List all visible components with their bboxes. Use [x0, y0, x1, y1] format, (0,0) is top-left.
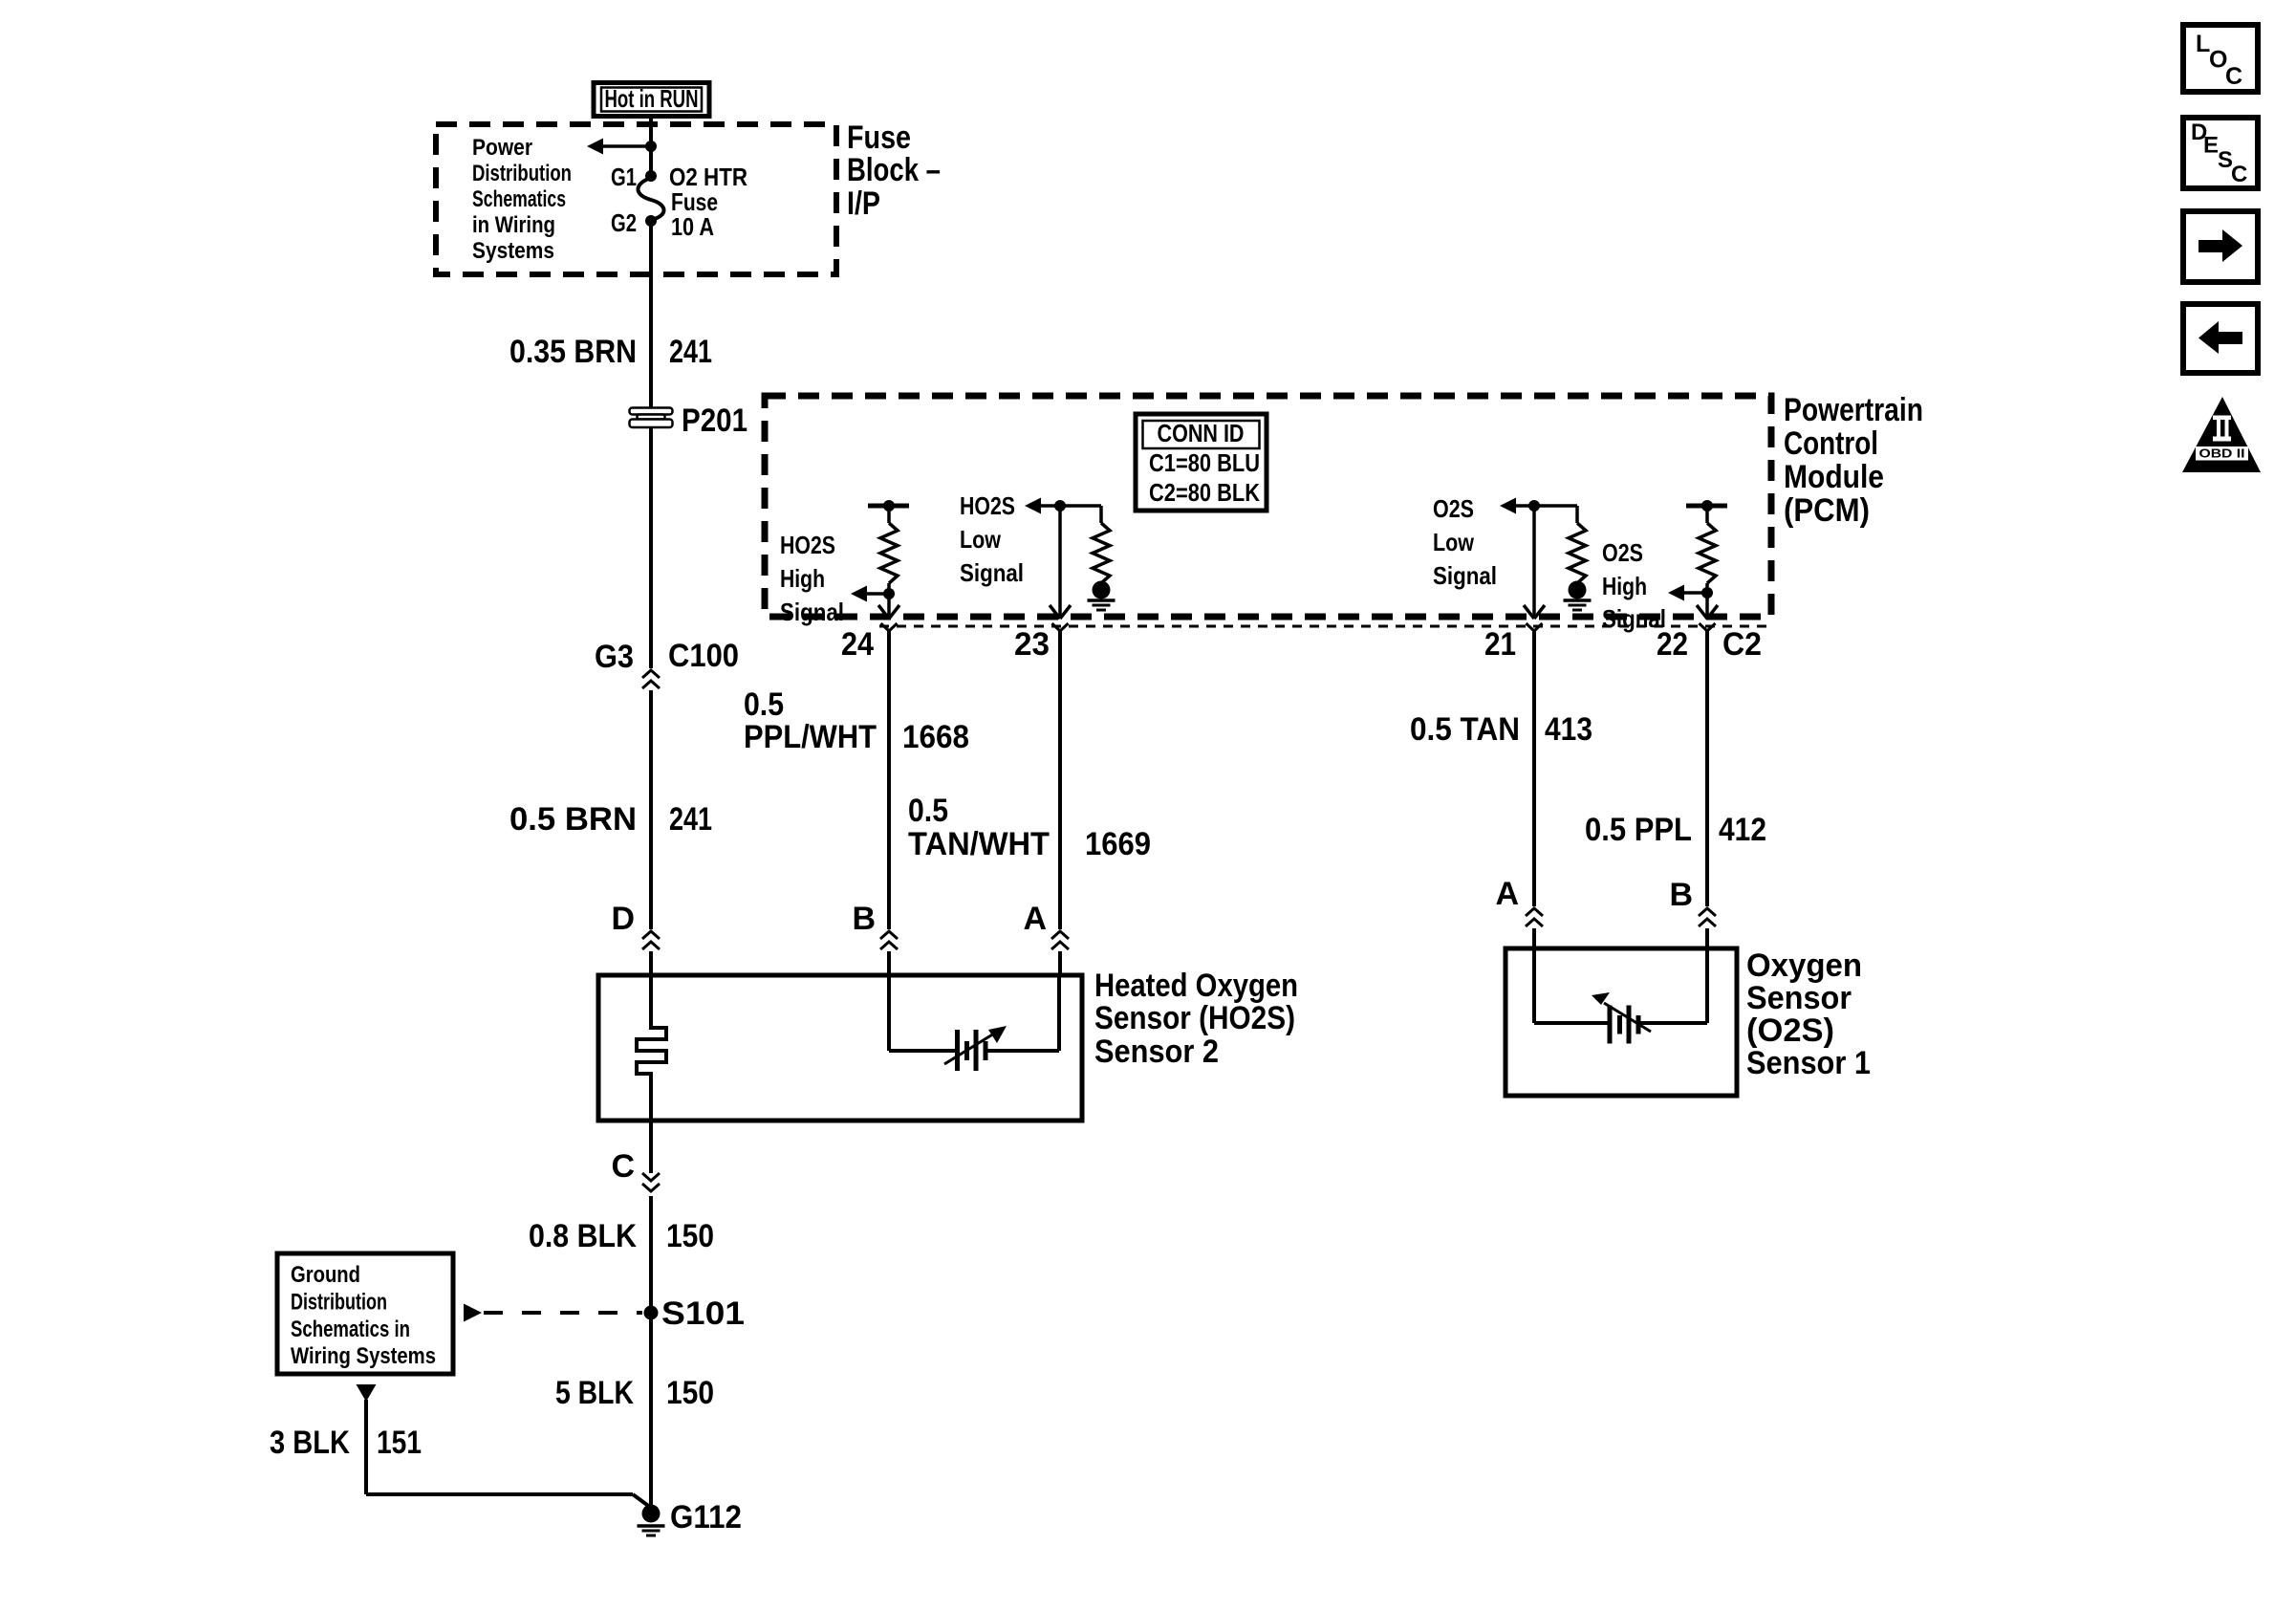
svg-text:Systems: Systems	[472, 238, 554, 264]
svg-text:PPL/WHT: PPL/WHT	[744, 719, 877, 755]
svg-text:Schematics: Schematics	[472, 186, 566, 212]
svg-text:Fuse: Fuse	[847, 120, 911, 156]
svg-text:G3: G3	[595, 639, 634, 675]
svg-text:G1: G1	[611, 163, 637, 191]
svg-text:High: High	[780, 564, 825, 593]
svg-text:B: B	[852, 901, 876, 937]
svg-text:10 A: 10 A	[671, 212, 714, 241]
svg-text:Schematics in: Schematics in	[291, 1317, 410, 1342]
svg-text:0.5: 0.5	[908, 793, 948, 829]
svg-text:C: C	[2225, 63, 2242, 90]
svg-text:3 BLK: 3 BLK	[270, 1425, 350, 1461]
svg-text:24: 24	[841, 626, 874, 663]
svg-text:(PCM): (PCM)	[1784, 492, 1870, 529]
svg-text:Signal: Signal	[1433, 561, 1497, 590]
svg-text:Sensor (HO2S): Sensor (HO2S)	[1094, 1000, 1295, 1036]
svg-text:5 BLK: 5 BLK	[555, 1375, 634, 1411]
svg-text:(O2S): (O2S)	[1746, 1012, 1834, 1049]
svg-text:0.8 BLK: 0.8 BLK	[529, 1218, 637, 1254]
svg-text:Signal: Signal	[960, 558, 1024, 587]
svg-text:Oxygen: Oxygen	[1746, 947, 1862, 984]
svg-text:G2: G2	[611, 208, 637, 237]
svg-text:150: 150	[666, 1375, 714, 1411]
svg-text:P201: P201	[682, 403, 747, 439]
svg-text:Block –: Block –	[847, 152, 941, 188]
svg-text:0.5 BRN: 0.5 BRN	[509, 801, 637, 838]
svg-text:Wiring Systems: Wiring Systems	[291, 1343, 436, 1369]
svg-text:21: 21	[1484, 626, 1516, 663]
svg-text:OBD II: OBD II	[2199, 446, 2245, 461]
svg-text:CONN ID: CONN ID	[1158, 419, 1245, 447]
svg-text:in Wiring: in Wiring	[472, 212, 555, 238]
svg-text:Sensor 1: Sensor 1	[1746, 1045, 1871, 1081]
svg-text:C2=80 BLK: C2=80 BLK	[1149, 478, 1260, 507]
svg-text:Low: Low	[960, 525, 1002, 554]
svg-text:HO2S: HO2S	[780, 531, 835, 559]
svg-text:23: 23	[1014, 626, 1050, 663]
svg-text:C: C	[2231, 162, 2247, 187]
svg-text:Low: Low	[1433, 528, 1475, 556]
svg-text:I/P: I/P	[847, 185, 880, 222]
svg-text:Module: Module	[1784, 459, 1884, 495]
svg-text:L: L	[2196, 31, 2210, 57]
svg-text:A: A	[1023, 901, 1047, 937]
svg-text:Power: Power	[472, 135, 532, 161]
svg-text:C1=80 BLU: C1=80 BLU	[1149, 448, 1260, 477]
svg-text:Distribution: Distribution	[472, 161, 572, 186]
svg-text:Sensor: Sensor	[1746, 980, 1852, 1016]
svg-text:C: C	[611, 1148, 635, 1185]
svg-text:Control: Control	[1784, 425, 1878, 462]
svg-text:Ground: Ground	[291, 1262, 360, 1288]
svg-text:1669: 1669	[1085, 826, 1151, 862]
svg-text:0.5: 0.5	[744, 686, 784, 723]
svg-text:High: High	[1602, 572, 1647, 600]
svg-text:Signal: Signal	[780, 598, 844, 626]
svg-text:E: E	[2203, 133, 2219, 159]
svg-text:S101: S101	[661, 1295, 745, 1332]
svg-text:Powertrain: Powertrain	[1784, 392, 1923, 428]
svg-text:241: 241	[669, 334, 712, 370]
svg-text:D: D	[611, 901, 635, 937]
svg-text:Sensor 2: Sensor 2	[1094, 1034, 1219, 1070]
svg-text:O2S: O2S	[1602, 538, 1643, 567]
svg-text:Distribution: Distribution	[291, 1289, 387, 1315]
svg-text:241: 241	[669, 801, 712, 838]
svg-text:151: 151	[377, 1425, 422, 1461]
svg-text:O2S: O2S	[1433, 494, 1474, 523]
svg-text:0.5 PPL: 0.5 PPL	[1585, 812, 1692, 848]
svg-text:0.35 BRN: 0.35 BRN	[509, 334, 637, 370]
svg-text:Heated Oxygen: Heated Oxygen	[1094, 968, 1298, 1004]
svg-text:A: A	[1495, 876, 1519, 912]
svg-text:TAN/WHT: TAN/WHT	[908, 826, 1050, 862]
svg-text:G112: G112	[670, 1499, 742, 1535]
svg-text:B: B	[1669, 877, 1693, 913]
svg-text:412: 412	[1719, 812, 1766, 848]
svg-text:22: 22	[1657, 626, 1688, 663]
svg-text:Hot in RUN: Hot in RUN	[605, 84, 699, 113]
svg-text:HO2S: HO2S	[960, 491, 1015, 520]
svg-text:150: 150	[666, 1218, 714, 1254]
svg-text:413: 413	[1545, 711, 1592, 748]
svg-text:C2: C2	[1722, 626, 1762, 663]
svg-text:0.5 TAN: 0.5 TAN	[1410, 711, 1520, 748]
svg-text:C100: C100	[668, 638, 739, 674]
svg-text:1668: 1668	[902, 719, 969, 755]
